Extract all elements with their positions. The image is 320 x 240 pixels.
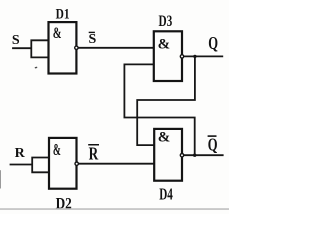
svg-text:&: & xyxy=(158,36,171,52)
svg-text:&: & xyxy=(53,140,61,159)
svg-text:&: & xyxy=(53,25,62,42)
svg-text:D2: D2 xyxy=(56,196,72,213)
svg-text:S: S xyxy=(89,32,97,47)
svg-text:S: S xyxy=(12,33,20,48)
svg-text:Q: Q xyxy=(208,135,218,155)
svg-text:Q: Q xyxy=(208,33,218,53)
svg-text:D3: D3 xyxy=(159,13,173,30)
svg-text:D4: D4 xyxy=(159,185,173,204)
svg-text:&: & xyxy=(158,130,171,146)
svg-text:R: R xyxy=(15,146,26,161)
svg-text:D1: D1 xyxy=(56,6,70,22)
svg-text:R: R xyxy=(89,143,99,163)
